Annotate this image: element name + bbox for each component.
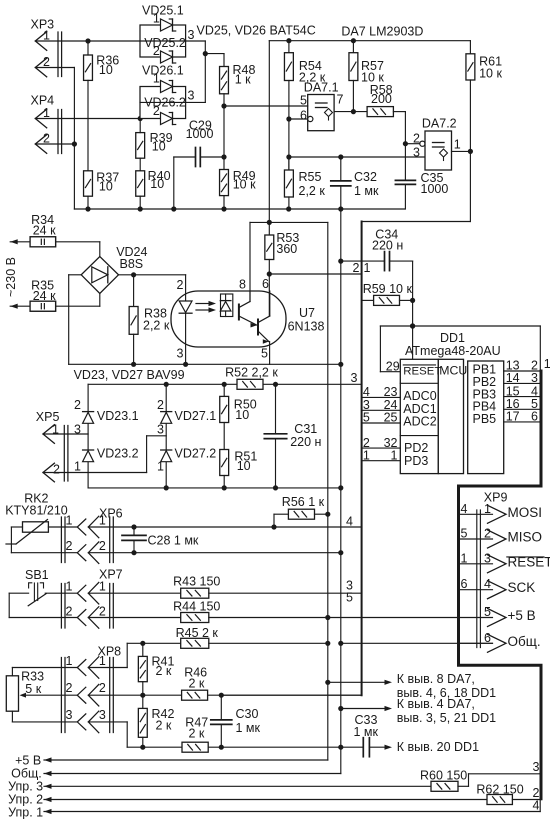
svg-text:PD3: PD3 xyxy=(404,454,428,468)
svg-text:2: 2 xyxy=(66,539,73,553)
svg-text:2 к: 2 к xyxy=(189,676,205,690)
svg-text:4: 4 xyxy=(363,385,370,399)
svg-text:200: 200 xyxy=(371,92,392,106)
svg-text:5: 5 xyxy=(461,527,468,541)
svg-text:~230 В: ~230 В xyxy=(4,257,18,297)
svg-text:1: 1 xyxy=(99,514,106,528)
svg-text:2: 2 xyxy=(484,527,491,541)
svg-text:SCK: SCK xyxy=(508,580,536,595)
svg-text:KTY81/210: KTY81/210 xyxy=(5,504,68,518)
svg-text:DD1: DD1 xyxy=(440,331,465,345)
svg-text:1: 1 xyxy=(74,460,81,474)
svg-text:1: 1 xyxy=(391,448,398,462)
svg-text:29: 29 xyxy=(386,360,400,374)
svg-text:К выв. 20 DD1: К выв. 20 DD1 xyxy=(397,740,479,754)
svg-text:1: 1 xyxy=(66,514,73,528)
svg-text:3: 3 xyxy=(484,551,491,565)
svg-text:1: 1 xyxy=(66,580,73,594)
svg-text:10: 10 xyxy=(150,177,164,191)
svg-text:ATmega48-20AU: ATmega48-20AU xyxy=(405,344,501,358)
svg-text:1: 1 xyxy=(484,502,491,516)
svg-text:U7: U7 xyxy=(299,306,315,320)
svg-text:VD27.1: VD27.1 xyxy=(175,409,217,423)
svg-text:10: 10 xyxy=(99,180,113,194)
svg-text:+5 В: +5 В xyxy=(508,608,536,623)
svg-text:4: 4 xyxy=(346,515,353,529)
svg-text:1: 1 xyxy=(43,29,50,43)
svg-text:1 мк: 1 мк xyxy=(236,721,261,735)
svg-text:1 мк: 1 мк xyxy=(354,184,379,198)
svg-text:DA7.2: DA7.2 xyxy=(422,117,457,131)
svg-text:4: 4 xyxy=(533,799,540,813)
svg-text:2: 2 xyxy=(66,681,73,695)
svg-text:1 к: 1 к xyxy=(235,73,251,87)
svg-text:17: 17 xyxy=(506,410,520,424)
svg-text:10 к: 10 к xyxy=(233,177,256,191)
svg-text:VD27.2: VD27.2 xyxy=(175,447,217,461)
svg-text:PB5: PB5 xyxy=(473,412,497,426)
svg-text:C30: C30 xyxy=(236,707,259,721)
svg-text:VD25.2: VD25.2 xyxy=(144,36,186,50)
svg-text:4: 4 xyxy=(484,577,491,591)
svg-text:3: 3 xyxy=(177,347,184,361)
svg-text:3: 3 xyxy=(157,423,164,437)
svg-text:К выв. 8 DA7,: К выв. 8 DA7, xyxy=(397,672,475,686)
svg-text:2: 2 xyxy=(99,681,106,695)
svg-text:MOSI: MOSI xyxy=(508,505,543,520)
svg-text:3: 3 xyxy=(66,708,73,722)
svg-text:2: 2 xyxy=(43,132,50,146)
svg-text:2,2 к: 2,2 к xyxy=(299,184,326,198)
svg-text:10: 10 xyxy=(237,459,251,473)
svg-text:DA7.1: DA7.1 xyxy=(304,81,339,95)
svg-text:2: 2 xyxy=(413,132,420,146)
svg-text:23: 23 xyxy=(384,385,398,399)
svg-text:5: 5 xyxy=(261,347,268,361)
svg-text:1: 1 xyxy=(153,71,160,85)
svg-text:3: 3 xyxy=(531,371,538,385)
svg-text:1: 1 xyxy=(43,106,50,120)
svg-text:VD25.1: VD25.1 xyxy=(142,4,184,18)
svg-text:3: 3 xyxy=(351,371,358,385)
svg-text:R55: R55 xyxy=(299,170,322,184)
svg-text:6N138: 6N138 xyxy=(288,320,325,334)
svg-text:PD2: PD2 xyxy=(404,441,428,455)
svg-text:Общ.: Общ. xyxy=(11,767,42,781)
svg-text:1: 1 xyxy=(157,460,164,474)
svg-text:2: 2 xyxy=(153,44,160,58)
svg-text:6: 6 xyxy=(531,410,538,424)
svg-text:DA7 LM2903D: DA7 LM2903D xyxy=(341,25,423,39)
svg-text:C28 1 мк: C28 1 мк xyxy=(148,534,199,548)
svg-text:5: 5 xyxy=(484,605,491,619)
svg-text:2,2 к: 2,2 к xyxy=(143,319,170,333)
svg-text:R59 10 к: R59 10 к xyxy=(363,282,413,296)
svg-text:25: 25 xyxy=(384,411,398,425)
svg-text:220 н: 220 н xyxy=(290,435,321,449)
svg-text:2: 2 xyxy=(177,278,184,292)
svg-text:2: 2 xyxy=(66,605,73,619)
svg-text:2: 2 xyxy=(157,398,164,412)
svg-text:Упр. 3: Упр. 3 xyxy=(8,780,43,794)
svg-text:VD26.2: VD26.2 xyxy=(144,96,186,110)
svg-text:2 к: 2 к xyxy=(156,719,172,733)
svg-text:R44 150: R44 150 xyxy=(173,600,220,614)
svg-text:MCU: MCU xyxy=(439,364,467,378)
svg-text:1 мк: 1 мк xyxy=(354,725,379,739)
svg-text:2: 2 xyxy=(74,398,81,412)
svg-text:К выв. 4 DA7,: К выв. 4 DA7, xyxy=(397,697,475,711)
svg-text:R56 1 к: R56 1 к xyxy=(282,495,325,509)
svg-text:C31: C31 xyxy=(294,422,317,436)
svg-text:ADC0: ADC0 xyxy=(403,389,436,403)
svg-text:6: 6 xyxy=(300,109,307,123)
svg-text:2 к: 2 к xyxy=(189,727,205,741)
svg-text:2: 2 xyxy=(43,55,50,69)
svg-text:R62 150: R62 150 xyxy=(476,783,523,797)
svg-text:1: 1 xyxy=(363,448,370,462)
svg-text:1000: 1000 xyxy=(186,127,214,141)
svg-text:ADC2: ADC2 xyxy=(403,415,436,429)
svg-text:2: 2 xyxy=(53,463,60,477)
svg-text:7: 7 xyxy=(337,93,344,107)
svg-text:8: 8 xyxy=(239,278,246,292)
svg-text:6: 6 xyxy=(461,577,468,591)
svg-text:5 к: 5 к xyxy=(25,682,41,696)
svg-text:10: 10 xyxy=(152,140,166,154)
svg-text:2: 2 xyxy=(353,261,360,275)
svg-text:1: 1 xyxy=(66,654,73,668)
svg-text:2: 2 xyxy=(99,539,106,553)
svg-text:Упр. 2: Упр. 2 xyxy=(8,793,43,807)
svg-text:5: 5 xyxy=(363,411,370,425)
svg-text:2: 2 xyxy=(99,605,106,619)
svg-text:1: 1 xyxy=(544,357,550,371)
svg-text:R60 150: R60 150 xyxy=(420,769,467,783)
svg-text:10: 10 xyxy=(99,63,113,77)
svg-text:B8S: B8S xyxy=(120,257,144,271)
svg-text:VD26.1: VD26.1 xyxy=(142,64,184,78)
svg-text:Упр. 1: Упр. 1 xyxy=(8,806,43,820)
svg-text:VD23.1: VD23.1 xyxy=(97,409,139,423)
svg-text:3: 3 xyxy=(188,28,195,42)
svg-text:4: 4 xyxy=(461,502,468,516)
svg-text:1000: 1000 xyxy=(421,182,449,196)
svg-text:1: 1 xyxy=(454,138,461,152)
svg-text:R52 2,2 к: R52 2,2 к xyxy=(225,366,278,380)
svg-text:10: 10 xyxy=(235,408,249,422)
svg-text:3: 3 xyxy=(533,760,540,774)
svg-text:6: 6 xyxy=(484,631,491,645)
svg-text:1: 1 xyxy=(364,261,371,275)
svg-text:10 к: 10 к xyxy=(479,67,502,81)
svg-text:1: 1 xyxy=(461,551,468,565)
svg-text:Общ.: Общ. xyxy=(508,634,541,649)
svg-text:24 к: 24 к xyxy=(33,223,56,237)
svg-text:1: 1 xyxy=(99,580,106,594)
svg-text:+5 В: +5 В xyxy=(15,754,41,768)
svg-text:RESET: RESET xyxy=(403,366,441,378)
svg-text:SB1: SB1 xyxy=(25,568,49,582)
svg-text:2 к: 2 к xyxy=(156,664,172,678)
svg-text:14: 14 xyxy=(506,371,520,385)
svg-text:R45 2 к: R45 2 к xyxy=(176,626,219,640)
svg-text:2: 2 xyxy=(153,104,160,118)
svg-text:VD23.2: VD23.2 xyxy=(97,447,139,461)
svg-text:3: 3 xyxy=(188,89,195,103)
svg-text:выв. 3, 5, 21 DD1: выв. 3, 5, 21 DD1 xyxy=(397,711,496,725)
svg-text:360: 360 xyxy=(276,242,297,256)
svg-text:MISO: MISO xyxy=(508,530,543,545)
svg-text:C32: C32 xyxy=(354,170,377,184)
svg-text:5: 5 xyxy=(300,94,307,108)
svg-text:220 н: 220 н xyxy=(372,239,403,253)
svg-text:1: 1 xyxy=(99,654,106,668)
svg-text:6: 6 xyxy=(262,277,269,291)
svg-text:R43 150: R43 150 xyxy=(173,575,220,589)
svg-text:5: 5 xyxy=(346,591,353,605)
svg-text:3: 3 xyxy=(413,146,420,160)
svg-text:VD23, VD27 BAV99: VD23, VD27 BAV99 xyxy=(74,368,185,382)
svg-text:VD25, VD26 BAT54C: VD25, VD26 BAT54C xyxy=(197,24,316,38)
svg-text:1: 1 xyxy=(153,11,160,25)
svg-text:3: 3 xyxy=(99,708,106,722)
